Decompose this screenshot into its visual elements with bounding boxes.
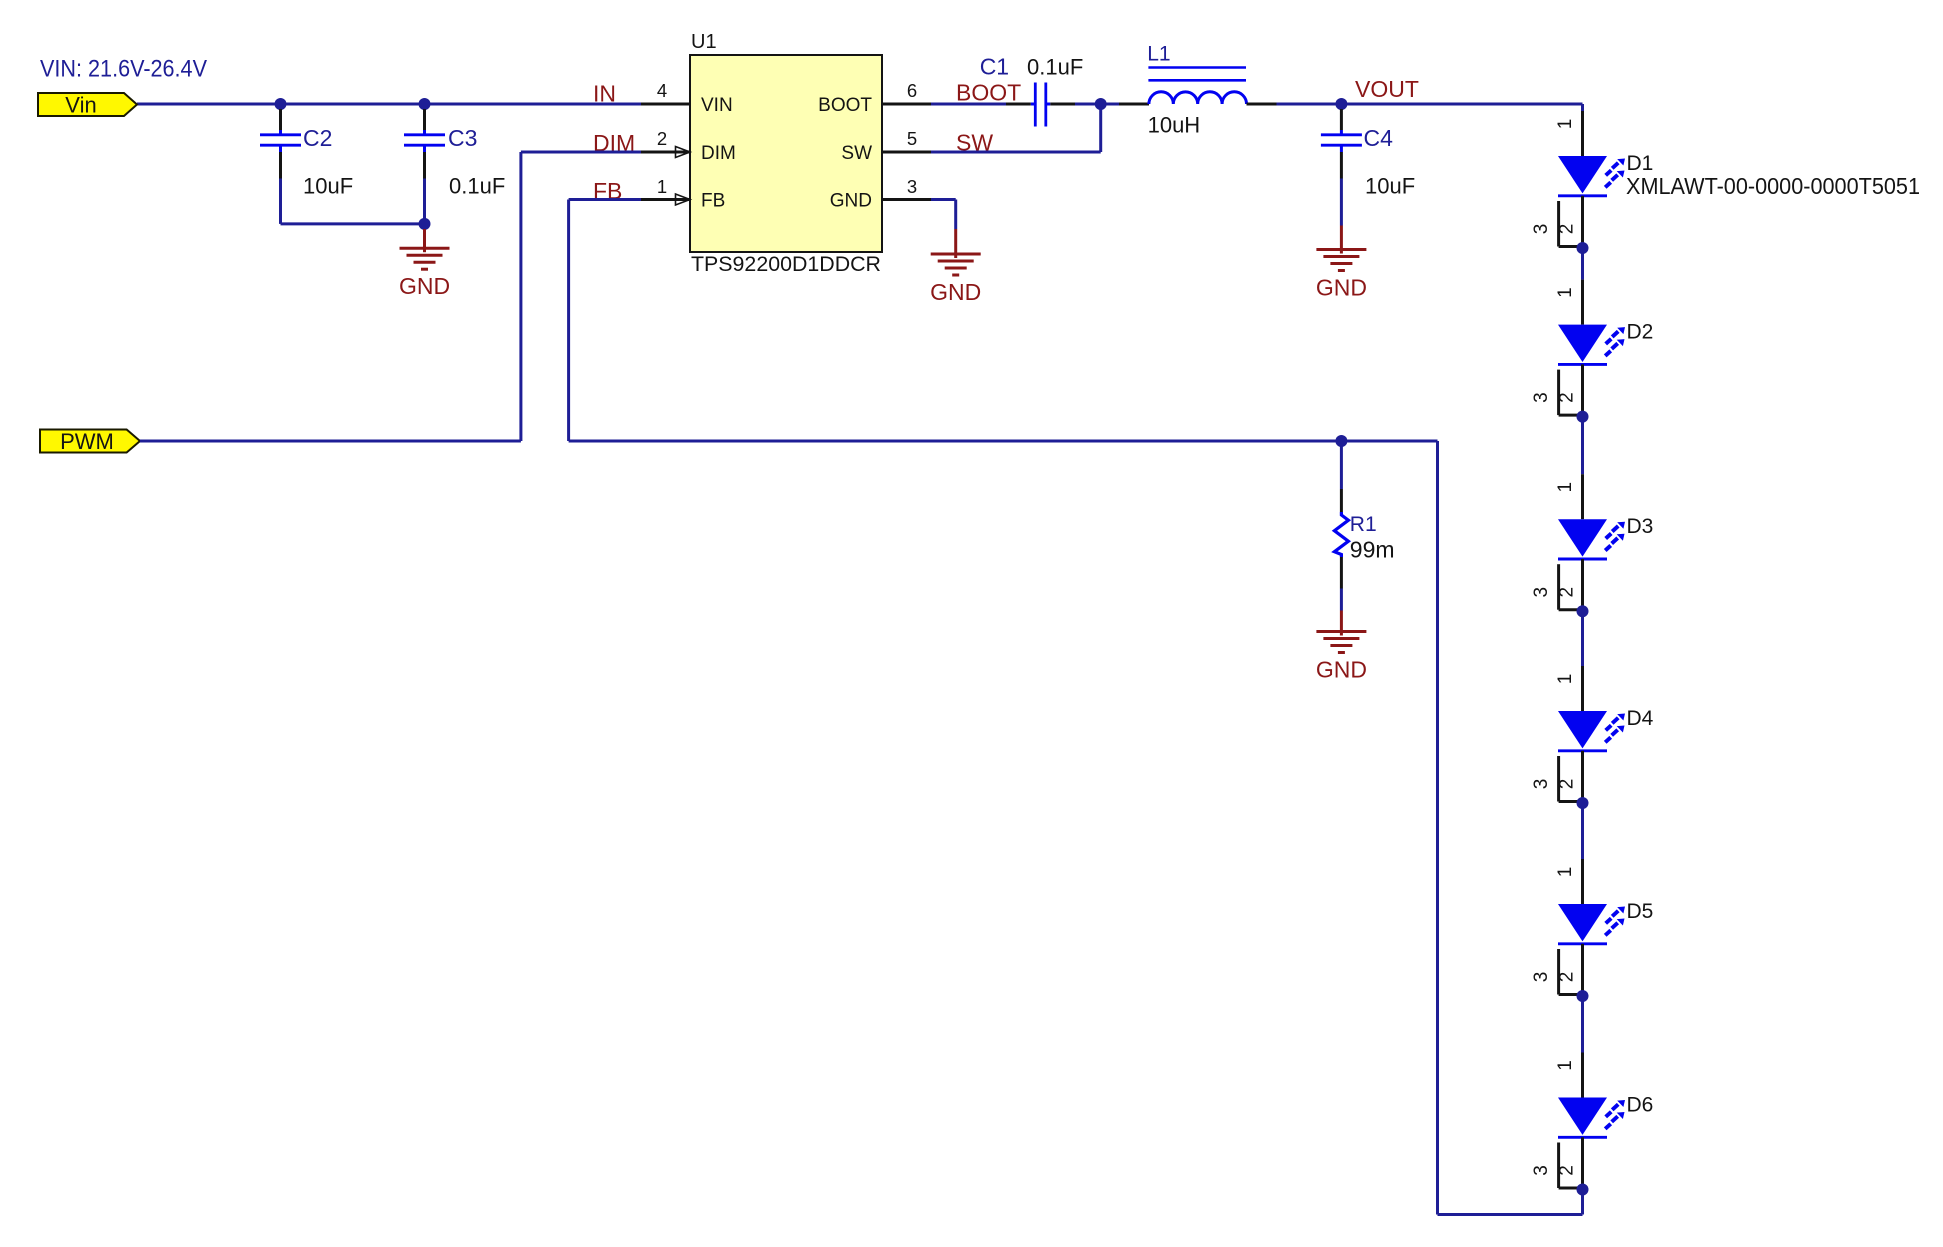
IC pin 5 SW stub — [882, 151, 931, 154]
LED D2 — [1531, 253, 1653, 417]
node D2 cathode junction — [1577, 411, 1589, 423]
ground — [930, 229, 981, 305]
svg-text:0.1uF: 0.1uF — [449, 174, 505, 199]
svg-text:4: 4 — [657, 80, 667, 101]
U1 pin numbers — [657, 80, 917, 197]
svg-text:0.1uF: 0.1uF — [1027, 55, 1083, 80]
svg-text:1: 1 — [657, 176, 667, 197]
svg-text:GND: GND — [930, 279, 981, 305]
node D4 cathode junction — [1577, 797, 1589, 809]
svg-text:C4: C4 — [1364, 125, 1394, 151]
wire R1 to ground — [1340, 589, 1343, 611]
wire LED string top — [1581, 104, 1584, 111]
resistor R1 — [1334, 441, 1394, 589]
svg-text:D6: D6 — [1627, 1094, 1654, 1117]
svg-text:1: 1 — [1555, 867, 1576, 878]
svg-text:C2: C2 — [303, 125, 332, 151]
node junction at C2 — [275, 98, 287, 110]
node R1/FB junction — [1335, 435, 1347, 447]
svg-text:2: 2 — [1557, 779, 1578, 790]
svg-text:1: 1 — [1555, 287, 1576, 298]
wire L1 to VOUT — [1277, 103, 1583, 106]
svg-text:D5: D5 — [1627, 900, 1654, 923]
LED D3 — [1531, 422, 1653, 612]
svg-text:VOUT: VOUT — [1355, 76, 1419, 102]
svg-text:2: 2 — [1557, 972, 1578, 983]
svg-text:3: 3 — [1531, 972, 1552, 983]
svg-text:3: 3 — [907, 176, 917, 197]
wire DIM net — [521, 151, 641, 154]
LED D4 — [1531, 616, 1654, 803]
node ground junction — [419, 218, 431, 230]
node D3 cathode junction — [1577, 605, 1589, 617]
U1 DIM input triangle — [676, 147, 691, 158]
wire VIN main horizontal net — [137, 103, 641, 106]
node VOUT junction — [1335, 98, 1347, 110]
op-amp U1 TPS92200 body — [690, 55, 882, 252]
svg-text:5: 5 — [907, 128, 917, 149]
svg-text:FB: FB — [701, 191, 725, 212]
ground — [1316, 226, 1367, 301]
svg-text:GND: GND — [399, 273, 450, 299]
svg-text:GND: GND — [1316, 657, 1367, 683]
node D5 cathode junction — [1577, 990, 1589, 1002]
svg-text:L1: L1 — [1147, 43, 1170, 66]
ground — [399, 229, 450, 299]
svg-text:2: 2 — [1557, 224, 1578, 235]
node D1 cathode junction — [1577, 242, 1589, 254]
LED D6 — [1531, 1001, 1653, 1190]
svg-text:TPS92200D1DDCR: TPS92200D1DDCR — [691, 252, 881, 276]
svg-text:VIN: 21.6V-26.4V: VIN: 21.6V-26.4V — [40, 56, 207, 83]
svg-text:2: 2 — [1557, 392, 1578, 403]
capacitor C3 — [404, 109, 505, 199]
IC pin 3 GND stub — [882, 198, 931, 201]
svg-text:XMLAWT-00-0000-0000T5051: XMLAWT-00-0000-0000T5051 — [1626, 173, 1920, 199]
svg-text:GND: GND — [830, 191, 872, 212]
IC pin 1 FB stub — [641, 198, 690, 201]
wire ground link C2-C3 — [281, 222, 425, 225]
IC pin 6 BOOT stub — [882, 103, 931, 106]
LED D5 — [1531, 808, 1653, 996]
IC pin 4 VIN stub — [641, 103, 690, 106]
svg-text:D4: D4 — [1627, 707, 1654, 730]
svg-text:3: 3 — [1531, 779, 1552, 790]
capacitor C4 — [1321, 109, 1415, 199]
svg-text:IN: IN — [593, 81, 616, 107]
svg-text:DIM: DIM — [701, 143, 736, 164]
port PWM — [40, 430, 140, 453]
port Vin — [38, 93, 137, 116]
svg-text:GND: GND — [1316, 275, 1367, 301]
svg-text:2: 2 — [657, 128, 667, 149]
svg-text:2: 2 — [1557, 1165, 1578, 1176]
svg-text:6: 6 — [907, 80, 917, 101]
LED D1 — [1531, 111, 1920, 248]
wire C4 bottom — [1340, 179, 1343, 226]
IC pin 2 DIM stub — [641, 151, 690, 154]
wire BOOT to C1 — [931, 103, 1006, 106]
svg-text:VIN: VIN — [701, 95, 733, 116]
wire C3 bottom — [423, 179, 426, 224]
svg-text:SW: SW — [841, 143, 872, 164]
ground — [1316, 611, 1367, 683]
svg-text:Vin: Vin — [65, 93, 96, 118]
svg-text:C3: C3 — [448, 125, 477, 151]
svg-text:3: 3 — [1531, 392, 1552, 403]
svg-text:PWM: PWM — [60, 429, 114, 454]
node SW/BOOT junction — [1095, 98, 1107, 110]
capacitor C2 — [260, 109, 353, 199]
wire FB net vertical — [569, 198, 641, 201]
wire C2 bottom — [279, 179, 282, 224]
svg-text:1: 1 — [1555, 119, 1576, 130]
svg-text:U1: U1 — [691, 31, 717, 53]
U1 FB input triangle — [676, 194, 691, 205]
wire SW net — [931, 151, 1101, 154]
svg-text:10uF: 10uF — [1365, 174, 1415, 199]
capacitor C1 — [980, 54, 1084, 127]
svg-text:R1: R1 — [1350, 513, 1377, 536]
node junction at C3 — [419, 98, 431, 110]
svg-text:3: 3 — [1531, 1165, 1552, 1176]
node D6 cathode junction — [1577, 1184, 1589, 1196]
wire PWM to DIM corner — [140, 440, 521, 443]
U1 pin names — [701, 95, 872, 212]
svg-text:D3: D3 — [1627, 515, 1654, 538]
svg-text:10uF: 10uF — [303, 174, 353, 199]
svg-text:3: 3 — [1531, 224, 1552, 235]
wire pin3 to ground — [931, 198, 956, 201]
svg-text:1: 1 — [1555, 674, 1576, 685]
svg-text:D2: D2 — [1627, 321, 1654, 344]
inductor L1 — [1119, 43, 1277, 138]
svg-text:C1: C1 — [980, 54, 1009, 80]
wire FB bottom run — [569, 440, 1438, 443]
wire C1 to node — [1075, 103, 1119, 106]
svg-text:2: 2 — [1557, 587, 1578, 598]
svg-text:BOOT: BOOT — [956, 80, 1021, 106]
svg-text:1: 1 — [1555, 482, 1576, 493]
svg-text:BOOT: BOOT — [818, 95, 872, 116]
svg-text:1: 1 — [1555, 1060, 1576, 1071]
svg-text:10uH: 10uH — [1148, 113, 1201, 138]
svg-text:99m: 99m — [1350, 537, 1395, 563]
svg-text:3: 3 — [1531, 587, 1552, 598]
svg-text:D1: D1 — [1627, 152, 1654, 175]
